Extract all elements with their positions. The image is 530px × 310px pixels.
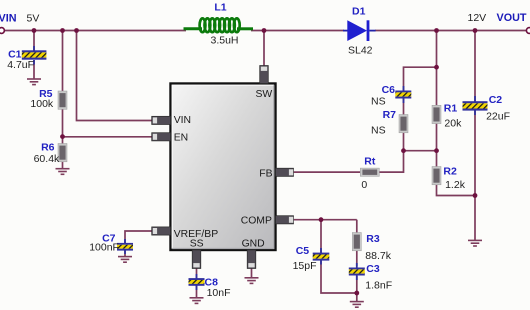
- svg-text:R7: R7: [383, 109, 397, 121]
- ground below C8: [190, 298, 204, 304]
- pin EN: [152, 133, 171, 141]
- svg-text:VOUT: VOUT: [497, 12, 527, 24]
- wire Rt right to FB node: [380, 151, 404, 172]
- capacitor C8: [189, 274, 205, 290]
- wire D1 cathode to VOUT terminal: [375, 30, 526, 32]
- ground below C1: [27, 79, 41, 85]
- wire R7 bottom to node row: [403, 132, 405, 150]
- svg-text:C5: C5: [296, 245, 310, 257]
- node junction R2-C2 ground line: [473, 193, 478, 198]
- pin VREF/BP: [152, 227, 171, 235]
- svg-text:NS: NS: [371, 96, 386, 108]
- svg-text:88.7k: 88.7k: [365, 250, 391, 262]
- resistor R1: [432, 105, 441, 123]
- wire R3 bottom to C3 top: [356, 251, 358, 267]
- capacitor C3: [349, 263, 365, 280]
- node junction R5 rail: [60, 28, 65, 33]
- svg-text:5V: 5V: [27, 12, 40, 24]
- wire C6 branch horizontal: [404, 67, 437, 91]
- svg-text:L1: L1: [214, 2, 226, 14]
- wire FB pin to Rt: [293, 171, 361, 173]
- svg-text:SW: SW: [255, 89, 272, 100]
- capacitor C2: [463, 96, 488, 115]
- node junction C3-ground row: [354, 291, 359, 296]
- svg-text:GND: GND: [242, 238, 265, 249]
- svg-text:100nF: 100nF: [89, 241, 119, 253]
- ground below GND pin: [245, 278, 259, 284]
- svg-text:VIN: VIN: [174, 115, 191, 126]
- wire R2 top lead: [436, 151, 438, 167]
- node junction R1 rail: [434, 28, 439, 33]
- wire C7 bottom to ground: [124, 251, 126, 257]
- wire top rail VIN to L1: [4, 30, 186, 32]
- svg-text:10nF: 10nF: [207, 287, 231, 299]
- wire GND pin to ground: [251, 268, 253, 278]
- svg-text:3.5uH: 3.5uH: [211, 34, 239, 46]
- wire COMP pin to R3 branch: [293, 219, 357, 221]
- wire VIN pin branch: [77, 31, 153, 121]
- svg-text:R3: R3: [366, 233, 380, 245]
- diode D1: [343, 20, 376, 41]
- resistor R5: [58, 91, 67, 109]
- wire C3 bottom to ground: [356, 276, 358, 302]
- svg-text:0: 0: [361, 179, 367, 191]
- pin SS: [192, 250, 201, 269]
- wire C5 bottom to bottom row: [321, 260, 357, 293]
- wire C5 branch down: [320, 220, 322, 253]
- svg-text:D1: D1: [352, 5, 366, 17]
- svg-text:20k: 20k: [444, 118, 462, 130]
- node junction VIN-pin rail: [74, 28, 79, 33]
- svg-text:15pF: 15pF: [293, 260, 317, 272]
- resistor R3: [352, 233, 361, 251]
- wire C1 bottom to ground: [33, 60, 35, 79]
- svg-text:C6: C6: [382, 84, 396, 96]
- resistor Rt: [360, 168, 379, 176]
- svg-text:100k: 100k: [30, 98, 54, 110]
- svg-text:22uF: 22uF: [486, 111, 510, 123]
- wire EN pin: [63, 136, 153, 138]
- ground below C7: [118, 257, 132, 263]
- svg-text:FB: FB: [259, 168, 272, 179]
- wire C2 bottom to ground: [474, 110, 476, 241]
- wire C8 bottom to ground: [196, 286, 198, 298]
- svg-text:R1: R1: [444, 103, 458, 115]
- wire C1 branch down: [33, 31, 35, 53]
- wire C6 bottom to R7 top: [403, 99, 405, 116]
- node junction R5-R6-EN: [60, 134, 65, 139]
- svg-text:C3: C3: [366, 263, 380, 275]
- pin SW: [260, 66, 269, 84]
- pin VIN: [152, 116, 171, 124]
- capacitor C7: [117, 239, 133, 254]
- wire R1 branch from rail: [436, 31, 438, 106]
- inductor L1: [184, 18, 254, 32]
- capacitor C1: [22, 46, 47, 65]
- wire R6 bottom to ground: [62, 162, 64, 169]
- node junction COMP C5 tap: [319, 217, 324, 222]
- svg-text:R6: R6: [41, 141, 55, 153]
- wire R5 top lead: [62, 31, 64, 92]
- pin GND: [247, 250, 256, 269]
- pin COMP: [276, 216, 294, 224]
- ground below R6: [56, 169, 70, 175]
- wire L1 to D1 anode: [251, 30, 344, 32]
- ground below C2: [468, 240, 482, 246]
- node junction C1 rail: [32, 28, 37, 33]
- svg-text:12V: 12V: [468, 12, 487, 24]
- svg-text:VIN: VIN: [0, 12, 17, 24]
- pin FB: [276, 168, 294, 176]
- wire VREF/BP pin to C7: [125, 231, 152, 244]
- svg-text:NS: NS: [371, 125, 386, 137]
- svg-text:4.7uF: 4.7uF: [7, 59, 34, 71]
- svg-text:C2: C2: [489, 94, 503, 106]
- wire R1 bottom to node: [436, 124, 438, 151]
- wire R5 bottom to R6 junction: [62, 109, 64, 144]
- svg-text:EN: EN: [174, 132, 188, 143]
- wire R2 bottom to C2 line: [437, 185, 476, 196]
- node junction FB row left: [401, 148, 406, 153]
- svg-text:COMP: COMP: [241, 216, 272, 227]
- wire SW branch: [263, 31, 265, 68]
- wire SS pin to C8: [196, 268, 198, 279]
- terminal VOUT: [526, 28, 530, 34]
- svg-text:1.8nF: 1.8nF: [365, 280, 392, 292]
- IC U1 body: [171, 84, 276, 251]
- svg-text:60.4k: 60.4k: [34, 153, 60, 165]
- svg-text:SL42: SL42: [348, 44, 373, 56]
- capacitor C5: [313, 248, 330, 265]
- node junction C2 rail: [473, 28, 478, 33]
- resistor R7: [399, 115, 408, 133]
- capacitor C6: [395, 86, 411, 103]
- node junction SW rail: [262, 28, 267, 33]
- terminal VIN: [0, 28, 4, 34]
- svg-text:SS: SS: [190, 238, 204, 249]
- node junction FB row right: [434, 148, 439, 153]
- svg-text:1.2k: 1.2k: [445, 179, 466, 191]
- wire R3 top lead: [356, 220, 358, 233]
- ground below C3: [350, 302, 364, 308]
- svg-text:R2: R2: [443, 165, 457, 177]
- wire node row R7 to R1R2: [404, 150, 437, 152]
- resistor R2: [432, 167, 441, 185]
- resistor R6: [58, 144, 67, 162]
- node junction C6 tap: [434, 65, 439, 70]
- svg-text:Rt: Rt: [364, 156, 376, 168]
- wire C2 branch from rail: [474, 31, 476, 103]
